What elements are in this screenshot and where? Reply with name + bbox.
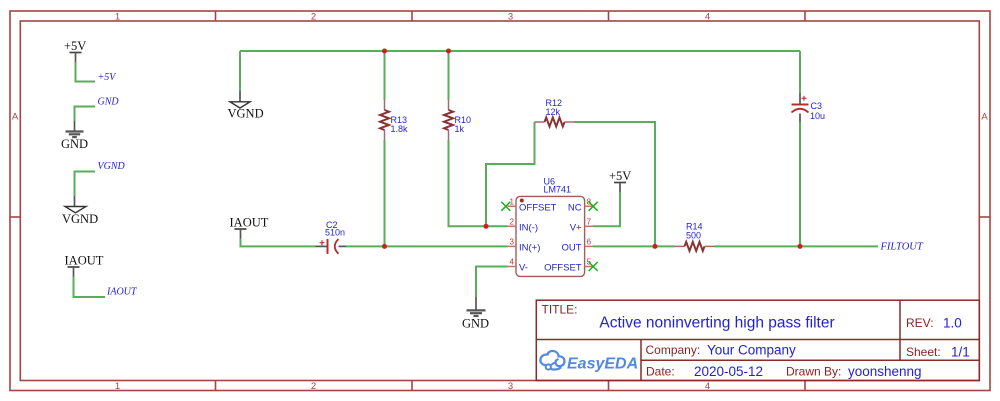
svg-text:GND: GND	[98, 97, 120, 108]
svg-text:yoonshenng: yoonshenng	[848, 364, 922, 379]
svg-text:IAOUT: IAOUT	[65, 254, 104, 268]
wire R14 to FILTOUT	[715, 245, 879, 247]
svg-text:1.8k: 1.8k	[391, 124, 409, 134]
pin 8 NC	[568, 198, 593, 214]
pin 2 IN(-)	[508, 218, 538, 234]
svg-text:500: 500	[686, 231, 701, 241]
pin 5 OFFSET	[544, 258, 593, 274]
capacitor C2	[316, 220, 347, 254]
wire C3 bottom	[799, 122, 801, 246]
svg-text:2: 2	[311, 381, 316, 392]
svg-text:VGND: VGND	[228, 107, 264, 121]
svg-text:LM741: LM741	[544, 185, 572, 195]
wire R13 bottom	[384, 140, 386, 246]
frame ticks bottom	[216, 381, 806, 391]
svg-text:1/1: 1/1	[951, 345, 970, 360]
svg-text:2: 2	[311, 12, 316, 23]
svg-text:1: 1	[115, 381, 120, 392]
svg-text:TITLE:: TITLE:	[542, 303, 578, 317]
resistor R12	[535, 98, 575, 127]
svg-text:V+: V+	[570, 223, 582, 234]
wire	[76, 62, 96, 82]
svg-text:Company:: Company:	[646, 343, 701, 357]
company cell	[646, 343, 797, 358]
pin 3 IN(+)	[508, 238, 541, 254]
ground VGND (top-left)	[62, 196, 98, 226]
wire	[74, 277, 106, 298]
wire IAOUT to C2	[241, 239, 316, 247]
wire pin4 to GND	[476, 267, 508, 298]
svg-text:510n: 510n	[325, 228, 345, 238]
svg-text:GND: GND	[61, 137, 88, 151]
junction R10 top rail	[446, 49, 451, 54]
EasyEDA logo	[540, 351, 638, 373]
resistor R10	[444, 100, 471, 140]
wire C2 to pin3	[346, 245, 508, 247]
svg-text:IN(-): IN(-)	[519, 222, 538, 233]
pin 4 V-	[508, 258, 528, 274]
netflag +5V (circuit)	[609, 169, 631, 192]
frame zone letters	[12, 112, 989, 123]
svg-text:3: 3	[510, 238, 515, 247]
junction C3 / FILTOUT net	[798, 244, 803, 249]
svg-text:IAOUT: IAOUT	[230, 216, 269, 230]
svg-text:Date:: Date:	[646, 365, 675, 379]
svg-text:IN(+): IN(+)	[519, 242, 540, 253]
svg-text:Sheet:: Sheet:	[906, 345, 941, 359]
svg-text:A: A	[12, 112, 19, 123]
svg-text:C3: C3	[811, 101, 823, 111]
junction R13 bottom / IN(+) net	[382, 244, 387, 249]
svg-text:IAOUT: IAOUT	[106, 287, 138, 298]
sheet cell	[906, 345, 970, 360]
resistor R13	[380, 100, 408, 140]
netflag +5V (top-left)	[64, 39, 86, 62]
svg-text:OFFSET: OFFSET	[519, 202, 557, 213]
no-connect X pin1	[501, 202, 510, 211]
frame zone numbers bottom	[115, 381, 710, 392]
rev cell	[906, 316, 962, 331]
port IAOUT (top-left)	[65, 254, 104, 277]
junction R12 / OUT net	[653, 244, 658, 249]
svg-text:7: 7	[587, 218, 592, 227]
date cell	[646, 364, 922, 379]
wire top rail	[240, 50, 800, 52]
wire	[75, 172, 96, 197]
svg-text:10u: 10u	[810, 111, 825, 121]
ground GND (top-left)	[61, 121, 88, 151]
svg-text:1: 1	[115, 12, 120, 23]
svg-text:Your Company: Your Company	[707, 343, 796, 358]
svg-text:3: 3	[508, 12, 513, 23]
svg-text:Drawn By:: Drawn By:	[786, 365, 841, 379]
svg-text:EasyEDA: EasyEDA	[567, 356, 638, 373]
no-connect X pin5	[589, 262, 598, 271]
wire C3 top	[799, 51, 801, 93]
svg-text:FILTOUT: FILTOUT	[880, 242, 924, 253]
no-connect X pin8	[589, 202, 598, 211]
svg-text:VGND: VGND	[62, 212, 98, 226]
wire feedback left	[486, 122, 535, 226]
pin 7 V+	[570, 218, 593, 234]
wire +5V to pin7	[593, 192, 620, 226]
svg-text:4: 4	[510, 258, 515, 267]
op-amp U6	[516, 177, 585, 277]
pin 6 OUT	[562, 238, 593, 254]
junction R13 top rail	[382, 49, 387, 54]
ground VGND (circuit)	[228, 91, 264, 121]
wire R13 top	[384, 51, 386, 100]
svg-text:2: 2	[510, 218, 515, 227]
wire R10 bottom to pin2	[449, 140, 508, 226]
svg-text:OFFSET: OFFSET	[544, 263, 582, 274]
svg-text:+5V: +5V	[98, 72, 118, 83]
svg-text:GND: GND	[462, 317, 489, 331]
svg-text:4: 4	[705, 12, 710, 23]
capacitor C3	[792, 93, 826, 122]
svg-text:3: 3	[508, 381, 513, 392]
frame ticks sides	[10, 216, 990, 218]
svg-text:REV:: REV:	[906, 316, 934, 330]
frame zone numbers top	[115, 12, 710, 23]
svg-text:2020-05-12: 2020-05-12	[694, 364, 763, 379]
svg-text:A: A	[981, 112, 988, 123]
svg-text:1k: 1k	[455, 124, 465, 134]
title text	[542, 303, 835, 332]
svg-text:6: 6	[587, 238, 592, 247]
junction feedback / IN(-) net	[484, 224, 489, 229]
resistor R14	[675, 222, 715, 251]
svg-text:NC: NC	[568, 202, 582, 213]
svg-text:OUT: OUT	[562, 242, 582, 253]
svg-text:V-: V-	[519, 263, 528, 274]
svg-text:VGND: VGND	[98, 161, 126, 172]
svg-text:12k: 12k	[546, 107, 561, 117]
wire	[75, 107, 96, 122]
frame ticks top	[216, 11, 806, 21]
ground GND (circuit)	[462, 297, 489, 331]
svg-text:1.0: 1.0	[943, 316, 962, 331]
wire R10 top	[448, 51, 450, 100]
svg-text:+5V: +5V	[64, 39, 86, 53]
title block borders	[536, 300, 979, 380]
svg-text:Active noninverting high pass: Active noninverting high pass filter	[599, 315, 834, 332]
wire OUT to R14	[593, 245, 675, 247]
pin 1 OFFSET	[508, 198, 557, 214]
port IAOUT (circuit)	[230, 216, 269, 239]
wire VGND drop	[239, 51, 241, 91]
svg-text:4: 4	[705, 381, 710, 392]
wire feedback right	[575, 122, 656, 246]
svg-text:+5V: +5V	[609, 169, 631, 183]
